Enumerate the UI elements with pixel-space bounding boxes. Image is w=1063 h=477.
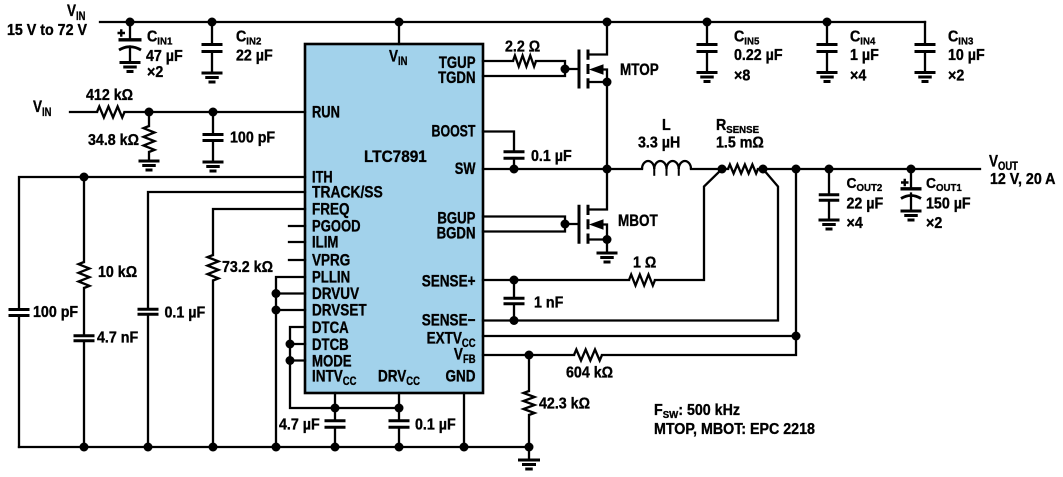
svg-text:22 µF: 22 µF xyxy=(847,196,884,213)
svg-text:×2: ×2 xyxy=(926,216,942,233)
svg-text:10 µF: 10 µF xyxy=(948,48,985,65)
svg-text:100 pF: 100 pF xyxy=(33,305,78,322)
svg-text:MTOP: MTOP xyxy=(620,61,659,80)
svg-text:1 nF: 1 nF xyxy=(534,295,563,312)
svg-text:34.8 kΩ: 34.8 kΩ xyxy=(88,133,139,150)
svg-text:×8: ×8 xyxy=(734,68,750,85)
svg-text:4.7 µF: 4.7 µF xyxy=(279,417,320,434)
svg-text:MTOP, MBOT: EPC 2218: MTOP, MBOT: EPC 2218 xyxy=(654,422,815,439)
svg-text:150 µF: 150 µF xyxy=(926,196,971,213)
svg-text:12 V, 20 A: 12 V, 20 A xyxy=(990,172,1056,189)
svg-text:15 V to 72 V: 15 V to 72 V xyxy=(7,23,87,40)
svg-text:×2: ×2 xyxy=(147,65,163,82)
svg-text:2.2 Ω: 2.2 Ω xyxy=(505,39,540,56)
svg-text:0.1 µF: 0.1 µF xyxy=(415,417,456,434)
svg-text:BGDN: BGDN xyxy=(437,224,476,243)
svg-text:GND: GND xyxy=(445,367,475,386)
svg-text:×2: ×2 xyxy=(948,68,964,85)
svg-text:TRACK/SS: TRACK/SS xyxy=(312,183,383,201)
svg-text:SW: SW xyxy=(455,161,476,179)
svg-text:604 kΩ: 604 kΩ xyxy=(566,365,613,382)
svg-text:MBOT: MBOT xyxy=(618,212,659,231)
svg-text:LTC7891: LTC7891 xyxy=(364,149,427,167)
svg-text:100 pF: 100 pF xyxy=(230,130,275,147)
svg-text:SENSE+: SENSE+ xyxy=(422,272,476,291)
svg-text:FREQ: FREQ xyxy=(312,200,350,219)
svg-text:1.5 mΩ: 1.5 mΩ xyxy=(716,135,764,152)
svg-text:0.22 µF: 0.22 µF xyxy=(734,48,783,65)
svg-text:BOOST: BOOST xyxy=(432,123,476,141)
svg-text:0.1 µF: 0.1 µF xyxy=(165,305,206,322)
svg-text:×4: ×4 xyxy=(850,68,867,85)
svg-text:47 µF: 47 µF xyxy=(146,49,183,66)
svg-text:TGDN: TGDN xyxy=(438,69,475,88)
svg-text:1 Ω: 1 Ω xyxy=(633,255,656,272)
svg-text:4.7 nF: 4.7 nF xyxy=(97,330,138,347)
svg-text:22 µF: 22 µF xyxy=(236,48,273,65)
svg-text:73.2 kΩ: 73.2 kΩ xyxy=(222,260,273,277)
svg-text:L: L xyxy=(662,118,671,135)
svg-text:ILIM: ILIM xyxy=(312,233,338,252)
svg-text:3.3 µH: 3.3 µH xyxy=(638,135,680,152)
svg-text:0.1 µF: 0.1 µF xyxy=(531,149,572,166)
svg-text:RUN: RUN xyxy=(312,104,340,122)
svg-text:SENSE−: SENSE− xyxy=(422,311,476,330)
svg-text:10 kΩ: 10 kΩ xyxy=(98,265,137,282)
svg-text:×4: ×4 xyxy=(847,216,864,233)
svg-text:VPRG: VPRG xyxy=(312,251,350,270)
svg-text:412 kΩ: 412 kΩ xyxy=(86,88,133,105)
svg-text:42.3 kΩ: 42.3 kΩ xyxy=(539,396,590,413)
svg-text:1 µF: 1 µF xyxy=(850,48,879,65)
svg-text:DRVSET: DRVSET xyxy=(312,301,367,320)
svg-text:DTCA: DTCA xyxy=(312,319,349,338)
